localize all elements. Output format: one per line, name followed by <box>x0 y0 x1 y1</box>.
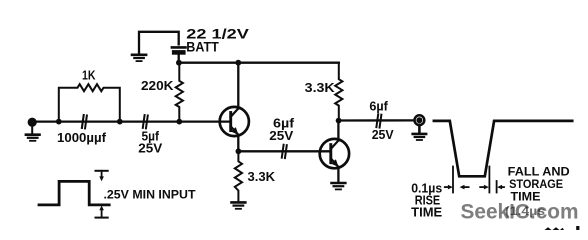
svg-text:1K: 1K <box>82 67 96 82</box>
wire Q1 collector <box>237 63 239 109</box>
svg-text:25V: 25V <box>372 127 394 142</box>
svg-text:(1.4µs: (1.4µs <box>505 204 545 218</box>
transistor Q2 <box>320 139 349 168</box>
wire emitter rail to Q2 base <box>238 150 330 152</box>
node Q1 collector top junction <box>235 60 241 66</box>
input pulse waveform <box>39 181 109 205</box>
pulse amplitude arrow top <box>96 171 108 181</box>
terminal input post <box>28 118 37 127</box>
resistor R1 1K (bypass loop) <box>59 84 120 121</box>
output pulse waveform <box>434 121 572 176</box>
node Q1 emitter junction <box>236 148 242 154</box>
transistor Q1 <box>220 107 249 136</box>
node 220K bottom junction <box>176 119 182 125</box>
capacitor C4 6uf <box>376 114 381 127</box>
dimension arrow fall-left <box>480 185 489 190</box>
wire Q2 emitter <box>337 167 339 182</box>
svg-text:3.3K: 3.3K <box>305 80 336 95</box>
capacitor C1 1000uuf <box>82 115 87 128</box>
wire Q1 emitter <box>237 135 239 152</box>
capacitor C2 5uf <box>143 115 148 128</box>
pulse amplitude arrow bottom <box>96 206 108 218</box>
svg-text:25V: 25V <box>269 128 293 143</box>
wire output rail <box>339 119 415 121</box>
svg-text:6µf: 6µf <box>369 98 388 113</box>
svg-text:220K: 220K <box>141 78 174 93</box>
node 1K left junction <box>56 119 62 125</box>
dimension extension line middle <box>488 167 490 193</box>
dimension arrow rise-left <box>445 185 453 190</box>
wire Q2 collector <box>337 121 339 141</box>
terminal output post <box>415 115 425 125</box>
node 1K right junction <box>117 119 123 125</box>
svg-text:.25V MIN INPUT: .25V MIN INPUT <box>104 188 196 202</box>
partial cut-off text bottom right <box>545 226 580 230</box>
wire battery loop <box>139 32 179 54</box>
svg-text:3.3K: 3.3K <box>248 169 276 184</box>
ground (R3) <box>232 202 246 208</box>
resistor R3 3.3K <box>235 151 242 200</box>
svg-text:25V: 25V <box>138 141 162 156</box>
wire top supply rail <box>179 62 339 64</box>
resistor R4 3.3K <box>335 63 342 121</box>
svg-text:BATT: BATT <box>186 39 219 54</box>
svg-text:1000µµf: 1000µµf <box>57 130 107 145</box>
dimension arrow rise-right <box>460 185 469 190</box>
capacitor C3 6uf <box>282 145 287 158</box>
svg-text:TIME: TIME <box>411 205 442 219</box>
dimension extension line right <box>496 181 498 193</box>
wire input rail <box>37 120 231 122</box>
resistor R2 220K <box>176 63 183 122</box>
ground (Q2 emitter) <box>332 183 346 189</box>
ground (output terminal) <box>413 125 426 140</box>
dimension arrow fall-right <box>497 185 504 190</box>
ground (input terminal) <box>26 125 40 141</box>
node battery junction <box>176 60 182 66</box>
battery BT1 <box>172 47 186 61</box>
dimension extension line left <box>452 167 454 193</box>
node Q2 collector junction <box>336 118 342 124</box>
ground (battery negative, top left) <box>132 55 146 61</box>
